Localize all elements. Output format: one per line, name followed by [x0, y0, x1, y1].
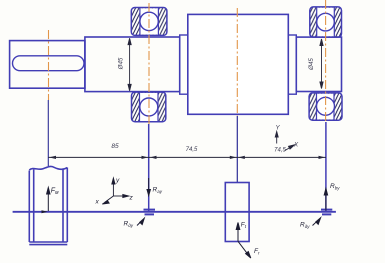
left radial arrow [137, 218, 144, 225]
diameter dimension left journal [128, 38, 131, 91]
beam axis line [13, 211, 336, 213]
force Ft arrow (up) [236, 223, 240, 242]
left support symbol [144, 210, 156, 215]
left bearing journal [85, 37, 180, 92]
construction line gear centerline down [236, 116, 238, 183]
gear blank (central block) [188, 14, 288, 114]
construction line left support [148, 124, 150, 212]
diameter dimension right journal [320, 39, 323, 89]
construction line below keyway centerline [47, 100, 49, 166]
bearing top-right [310, 7, 342, 37]
bearing bottom-right [309, 93, 342, 120]
centerline right bearing [325, 0, 327, 122]
bearing top-left [131, 8, 167, 36]
svg-text:74,5: 74,5 [186, 147, 198, 153]
force Fm arrow at coupling [47, 188, 50, 212]
coordinate axes x y z [102, 178, 129, 204]
right radial arrow [313, 218, 321, 226]
left shoulder collar [180, 35, 188, 94]
centerline left bearing [148, 3, 150, 124]
right bearing journal [296, 37, 341, 91]
coupling hub (bottom left box) [29, 166, 67, 244]
right reaction arrow (up) [324, 189, 327, 211]
right support symbol [321, 210, 332, 215]
left reaction arrow (down) [147, 178, 150, 196]
bearing bottom-left [132, 92, 166, 122]
dimension arrowheads [49, 156, 325, 159]
centerline keyway section [48, 30, 50, 100]
svg-text:85: 85 [111, 143, 119, 150]
gear (bottom middle box) [225, 183, 249, 242]
svg-text:Ø45: Ø45 [118, 57, 125, 70]
construction line right support [325, 122, 327, 212]
force Fr arrow (diagonal) [238, 241, 251, 258]
X axis marker [285, 145, 295, 151]
shaft left end section with keyway [10, 41, 85, 89]
svg-text:X: X [293, 142, 299, 149]
span dimension line [48, 156, 326, 158]
beam pointer arrowhead [42, 210, 48, 213]
right shoulder collar [288, 35, 296, 94]
svg-text:Ø45: Ø45 [308, 58, 315, 71]
Y axis marker [275, 132, 278, 144]
keyway slot [13, 56, 85, 71]
centerline gear blank [236, 8, 238, 116]
